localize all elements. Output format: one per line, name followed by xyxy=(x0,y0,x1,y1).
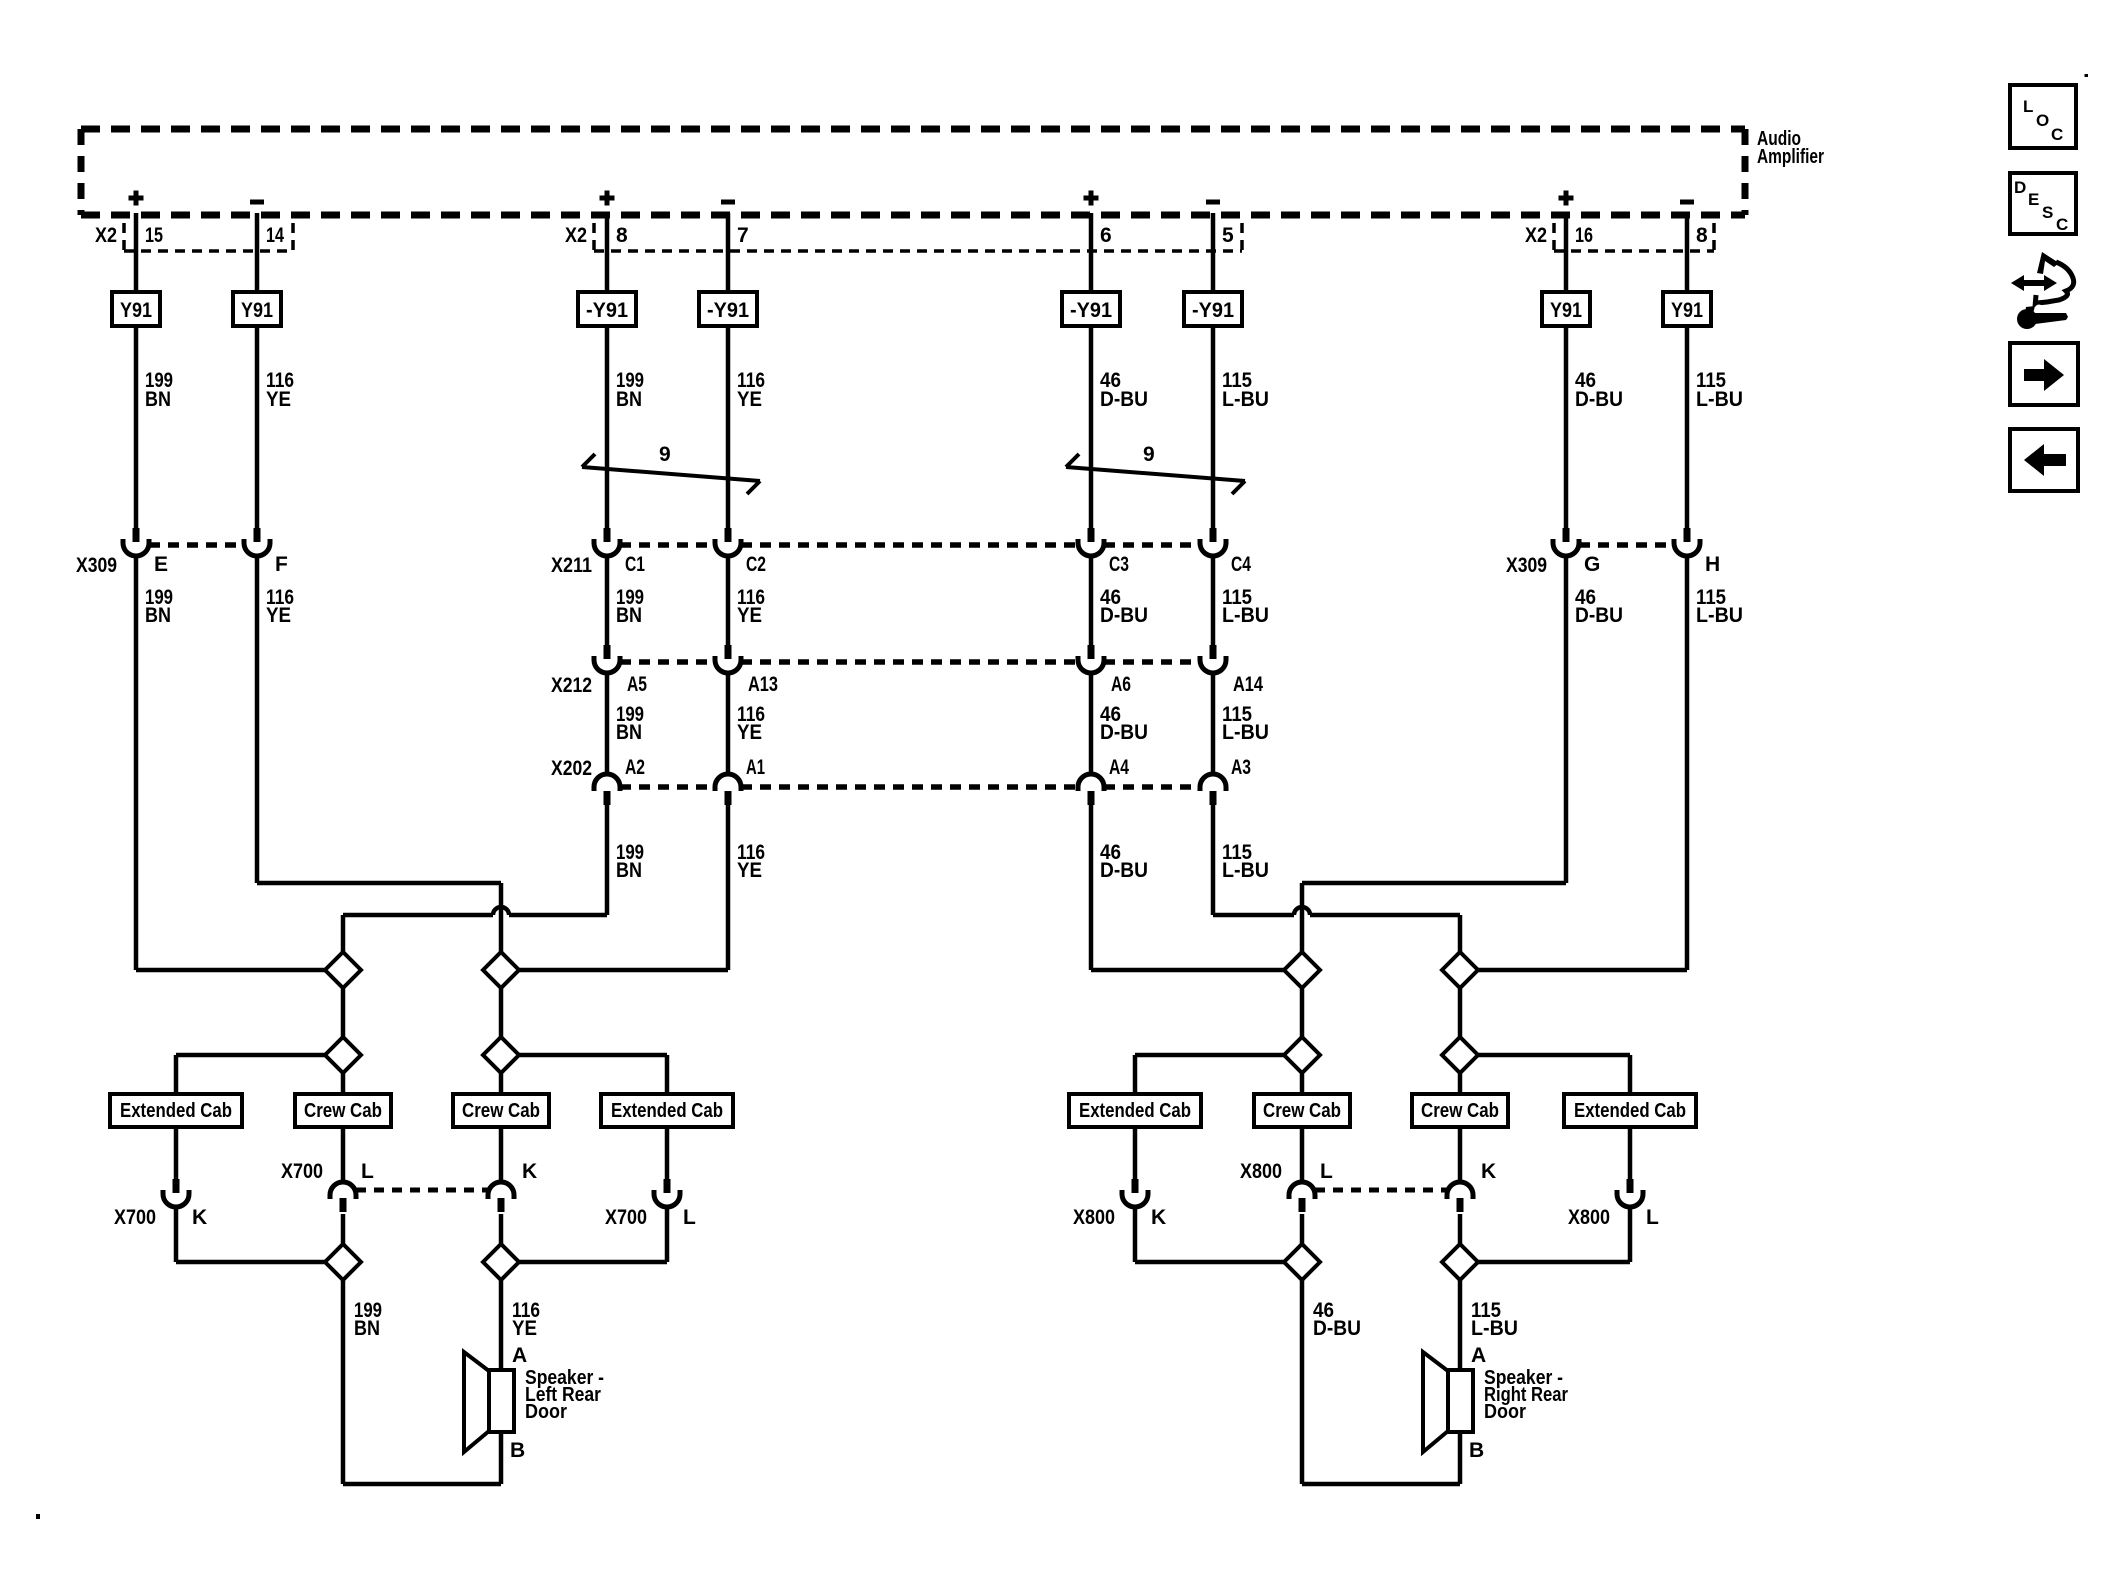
connector X211 dashed body C3-C4 xyxy=(1104,542,1200,548)
wire segment cab box to door connector xyxy=(1133,1127,1138,1179)
inline connector X202 terminal (flipped) xyxy=(1200,774,1226,805)
wire label 46 D-BU xyxy=(1100,586,1148,627)
wire label 199 BN xyxy=(616,841,644,882)
svg-text:15: 15 xyxy=(145,224,163,247)
svg-text:C3: C3 xyxy=(1109,553,1129,576)
wire segment X309-F down to crossover xyxy=(255,556,260,883)
wire segment cab box to door connector xyxy=(1628,1127,1633,1179)
wire 116 YE splice S10 to speaker A terminal xyxy=(499,1280,504,1370)
icon box DESC xyxy=(2010,173,2076,234)
inline connector terminal (pin+socket) xyxy=(123,528,149,556)
amplifier terminal - (RR-) xyxy=(1206,200,1220,205)
svg-text:BN: BN xyxy=(616,388,642,411)
connector X202 dashed body A2-A1 xyxy=(620,784,715,790)
svg-text:A: A xyxy=(512,1344,527,1367)
svg-text:Door: Door xyxy=(1484,1401,1526,1423)
wire label 46 D-BU xyxy=(1100,841,1148,882)
inline connector terminal (pin+socket) xyxy=(1553,528,1579,556)
svg-text:BN: BN xyxy=(616,604,642,627)
stray dot top right xyxy=(2085,74,2089,77)
connector X2 dashed box (pins 16,8) xyxy=(1554,223,1714,251)
inline connector X202 terminal (flipped) xyxy=(594,774,620,805)
svg-text:D-BU: D-BU xyxy=(1575,388,1623,411)
svg-text:K: K xyxy=(522,1160,537,1183)
svg-text:L: L xyxy=(1646,1206,1659,1229)
svg-text:6: 6 xyxy=(1100,224,1112,247)
svg-text:Amplifier: Amplifier xyxy=(1757,146,1824,168)
svg-text:Extended Cab: Extended Cab xyxy=(611,1100,723,1122)
svg-text:14: 14 xyxy=(266,224,284,247)
wire segment Y91 box to inline connector xyxy=(1564,326,1569,528)
icon box forward arrow xyxy=(2010,343,2078,405)
svg-text:L-BU: L-BU xyxy=(1696,388,1743,411)
svg-text:Door: Door xyxy=(525,1401,567,1423)
svg-text:8: 8 xyxy=(616,224,628,247)
wire segment Y91 box to inline connector xyxy=(1685,326,1690,528)
splice diamond S1 xyxy=(325,952,361,988)
speaker LS1 name label xyxy=(525,1367,604,1423)
svg-text:YE: YE xyxy=(512,1317,537,1340)
component code box -Y91 xyxy=(578,292,636,326)
amplifier terminal - (RF-) xyxy=(1680,200,1694,205)
wire X800-K middle down to splice S12 xyxy=(1458,1214,1463,1244)
wire branch to Extended Cab (right inner) xyxy=(1478,1055,1630,1094)
inline connector terminal (pin+socket) xyxy=(244,528,270,556)
component code box -Y91 xyxy=(1184,292,1242,326)
wire X800-L outer down and left to splice S12 xyxy=(1478,1207,1630,1262)
svg-text:X2: X2 xyxy=(1525,224,1547,247)
svg-text:X700: X700 xyxy=(281,1160,323,1183)
wire segment X309-H down to splice area xyxy=(1685,556,1690,970)
svg-text:X800: X800 xyxy=(1240,1160,1282,1183)
svg-text:L-BU: L-BU xyxy=(1222,859,1269,882)
stray mark bottom left xyxy=(36,1514,40,1519)
connector X800 terminal K (left outer) xyxy=(1122,1179,1148,1207)
wire X700-L outer down and left to splice S10 xyxy=(519,1207,667,1262)
svg-text:K: K xyxy=(192,1206,207,1229)
wire segment amplifier to Y91 box xyxy=(1211,213,1216,292)
svg-text:X800: X800 xyxy=(1568,1206,1610,1229)
wire 116 YE X309-F down right to splice S2 xyxy=(257,883,501,952)
svg-text:L-BU: L-BU xyxy=(1222,604,1269,627)
svg-text:Extended Cab: Extended Cab xyxy=(1079,1100,1191,1122)
wire segment X212 to X202 xyxy=(605,673,610,774)
wire label 46 D-BU xyxy=(1575,369,1623,411)
svg-text:Y91: Y91 xyxy=(120,299,152,322)
svg-text:K: K xyxy=(1481,1160,1496,1183)
svg-text:YE: YE xyxy=(737,604,762,627)
svg-text:8: 8 xyxy=(1696,224,1708,247)
amplifier terminal + (RR+) xyxy=(1084,191,1099,206)
svg-text:16: 16 xyxy=(1575,224,1593,247)
svg-text:C2: C2 xyxy=(746,553,766,576)
wire label 116 YE xyxy=(737,841,765,882)
svg-text:A3: A3 xyxy=(1231,756,1251,779)
connector X800 terminal L (right outer) xyxy=(1617,1179,1643,1207)
svg-text:A6: A6 xyxy=(1111,673,1131,696)
wire segment X211 to X212 xyxy=(1211,556,1216,645)
wire label 46 D-BU xyxy=(1100,369,1148,411)
wire 115 L-BU X202-A3 down right to splice S4 (hop over) xyxy=(1213,804,1460,952)
connector X202 dashed body A1-A4 xyxy=(741,784,1078,790)
svg-text:X700: X700 xyxy=(605,1206,647,1229)
svg-text:BN: BN xyxy=(354,1317,380,1340)
audio amplifier label xyxy=(1757,128,1824,168)
svg-text:L-BU: L-BU xyxy=(1222,721,1269,744)
wire segment Y91 box to inline connector xyxy=(605,326,610,528)
wire label 115 L-BU xyxy=(1222,703,1269,744)
inline connector X212 terminal xyxy=(594,645,620,673)
splice diamond S10 xyxy=(483,1244,519,1280)
connector X212 dashed body A5-A13 xyxy=(620,659,715,665)
svg-text:Y91: Y91 xyxy=(241,299,273,322)
wire 199 BN splice S9 to speaker B terminal xyxy=(343,1280,501,1484)
wire 199 BN X202-A2 down then left to splice S1 (hop over) xyxy=(343,804,607,952)
amplifier terminal + (LR+) xyxy=(600,191,615,206)
wire 116 YE X202-A1 down left into splice S2 xyxy=(519,804,728,970)
wire segment cab box to door connector xyxy=(1458,1127,1463,1183)
splice diamond S8 xyxy=(1442,1037,1478,1073)
svg-text:E: E xyxy=(2028,190,2039,209)
svg-text:C: C xyxy=(2051,125,2063,144)
wire X700-K middle down to splice S10 xyxy=(499,1214,504,1244)
splice diamond S6 xyxy=(483,1037,519,1073)
wire segment cab box to door connector xyxy=(174,1127,179,1179)
svg-text:BN: BN xyxy=(145,604,171,627)
inline connector terminal (pin+socket) xyxy=(1674,528,1700,556)
connector X212 dashed body A6-A14 xyxy=(1104,659,1200,665)
svg-text:YE: YE xyxy=(737,388,762,411)
connector X700 dashed body L-K xyxy=(356,1188,488,1193)
svg-text:D-BU: D-BU xyxy=(1100,859,1148,882)
wire label 116 YE xyxy=(266,369,294,411)
component code box Y91 xyxy=(233,292,281,326)
wire label 199 BN xyxy=(145,586,173,627)
wire segment amplifier to Y91 box xyxy=(1685,213,1690,292)
wire label 116 YE xyxy=(737,586,765,627)
component code box -Y91 xyxy=(1062,292,1120,326)
svg-text:L-BU: L-BU xyxy=(1696,604,1743,627)
speaker LS1 Left Rear Door symbol xyxy=(464,1352,514,1452)
svg-text:X309: X309 xyxy=(76,554,117,577)
splice diamond S3 xyxy=(1284,952,1320,988)
audio amplifier U1 dashed outline box xyxy=(81,129,1745,215)
svg-text:9: 9 xyxy=(1143,443,1155,466)
svg-text:-Y91: -Y91 xyxy=(586,299,628,322)
svg-text:D-BU: D-BU xyxy=(1100,388,1148,411)
connector X800 terminal K (crew cab right) xyxy=(1447,1182,1473,1212)
svg-text:L-BU: L-BU xyxy=(1471,1317,1518,1340)
splice diamond S7 xyxy=(1284,1037,1320,1073)
wire label 116 YE xyxy=(737,703,765,744)
wire label 115 L-BU xyxy=(1222,369,1269,411)
svg-text:YE: YE xyxy=(737,859,762,882)
splice diamond S9 xyxy=(325,1244,361,1280)
svg-text:5: 5 xyxy=(1222,224,1234,247)
svg-text:K: K xyxy=(1151,1206,1166,1229)
wire label 115 L-BU (to right speaker) xyxy=(1471,1299,1518,1340)
wire segment amplifier to Y91 box xyxy=(134,213,139,292)
svg-text:-Y91: -Y91 xyxy=(1192,299,1234,322)
twisted-pair symbol 9 (wires 199/116 left-rear) xyxy=(582,443,760,494)
wire segment Y91 box to inline connector xyxy=(255,326,260,528)
splice diamond S2 xyxy=(483,952,519,988)
inline connector terminal (pin+socket) xyxy=(715,528,741,556)
wire segment X309-E down to splice area xyxy=(134,556,139,970)
splice diamond S11 xyxy=(1284,1244,1320,1280)
wire label 46 D-BU xyxy=(1100,703,1148,744)
svg-text:D: D xyxy=(2014,178,2026,197)
speaker LS2 name label xyxy=(1484,1367,1568,1423)
svg-text:O: O xyxy=(2036,111,2049,130)
option box Extended Cab (left inner) xyxy=(601,1094,733,1127)
option box Crew Cab (left) xyxy=(295,1094,391,1127)
svg-text:C4: C4 xyxy=(1231,553,1251,576)
wire 46 D-BU splice S11 to right speaker B terminal xyxy=(1302,1280,1460,1484)
connector X800 terminal L (crew cab left) xyxy=(1289,1182,1315,1212)
wire segment X211 to X212 xyxy=(605,556,610,645)
svg-text:X2: X2 xyxy=(565,224,587,247)
connector X700 terminal L (crew cab left) xyxy=(330,1182,356,1212)
option box Crew Cab (right) xyxy=(1254,1094,1350,1127)
wire 115 L-BU splice S12 to right speaker A terminal xyxy=(1458,1280,1463,1370)
wire segment X212 to X202 xyxy=(1089,673,1094,774)
svg-text:L: L xyxy=(683,1206,696,1229)
wire X700-K outer down and right to splice S9 xyxy=(176,1207,325,1262)
amplifier terminal - (LF-) xyxy=(250,200,264,205)
svg-text:YE: YE xyxy=(266,388,291,411)
svg-text:7: 7 xyxy=(737,224,749,247)
svg-text:D-BU: D-BU xyxy=(1313,1317,1361,1340)
connector X309 left dashed body E-F xyxy=(149,542,244,548)
svg-text:L: L xyxy=(361,1160,374,1183)
amplifier terminal - (LR-) xyxy=(721,200,735,205)
wire label 46 D-BU (to right speaker) xyxy=(1313,1299,1361,1340)
wire 46 D-BU X202-A4 down then to splice S3 area xyxy=(1091,804,1284,970)
wire segment splice to splice xyxy=(499,988,504,1037)
svg-text:Crew Cab: Crew Cab xyxy=(1421,1100,1499,1122)
inline connector X212 terminal xyxy=(1078,645,1104,673)
wire label 115 L-BU xyxy=(1696,586,1743,627)
connector X2 dashed box (pins 8,7,6,5) xyxy=(594,223,1242,251)
wire segment Y91 box to inline connector xyxy=(1211,326,1216,528)
svg-text:X202: X202 xyxy=(551,757,592,780)
wire label 115 L-BU xyxy=(1696,369,1743,411)
svg-text:X800: X800 xyxy=(1073,1206,1115,1229)
svg-text:BN: BN xyxy=(616,859,642,882)
wire branch to Crew Cab (right) xyxy=(1300,1073,1305,1094)
svg-text:Extended Cab: Extended Cab xyxy=(120,1100,232,1122)
connector X202 dashed body A4-A3 xyxy=(1104,784,1200,790)
svg-text:A1: A1 xyxy=(746,756,765,779)
svg-text:X2: X2 xyxy=(95,224,117,247)
inline connector X202 terminal (flipped) xyxy=(715,774,741,805)
svg-text:9: 9 xyxy=(659,443,671,466)
svg-text:A4: A4 xyxy=(1109,756,1129,779)
wire segment amplifier to Y91 box xyxy=(1564,213,1569,292)
splice diamond S12 xyxy=(1442,1244,1478,1280)
icon box back arrow xyxy=(2010,429,2078,491)
svg-text:YE: YE xyxy=(737,721,762,744)
connector X800 dashed body L-K xyxy=(1315,1188,1447,1193)
icon box LOC xyxy=(2010,85,2076,148)
wire branch to Crew Cab (right inner) xyxy=(1458,1073,1463,1094)
wire branch to Extended Cab (right outer) xyxy=(1135,1055,1284,1094)
wire segment cab box to door connector xyxy=(665,1127,670,1179)
svg-text:A13: A13 xyxy=(748,673,778,696)
inline connector X212 terminal xyxy=(715,645,741,673)
connector X211 dashed body C1-C2 xyxy=(620,542,715,548)
svg-text:Crew Cab: Crew Cab xyxy=(462,1100,540,1122)
wire segment splice to splice xyxy=(1458,988,1463,1037)
connector X700 terminal K (left outer) xyxy=(163,1179,189,1207)
wire segment X309-G down to crossover xyxy=(1564,556,1569,883)
svg-text:F: F xyxy=(275,553,288,576)
wire label 115 L-BU xyxy=(1222,586,1269,627)
svg-text:X212: X212 xyxy=(551,674,592,697)
wire label 46 D-BU xyxy=(1575,586,1623,627)
inline connector terminal (pin+socket) xyxy=(594,528,620,556)
option box Extended Cab (left outer) xyxy=(110,1094,242,1127)
amplifier terminal + (LF+) xyxy=(129,191,144,206)
svg-text:H: H xyxy=(1705,553,1720,576)
wire segment cab box to door connector xyxy=(1300,1127,1305,1183)
svg-text:X700: X700 xyxy=(114,1206,156,1229)
svg-text:Y91: Y91 xyxy=(1671,299,1703,322)
svg-text:A5: A5 xyxy=(627,673,647,696)
svg-text:D-BU: D-BU xyxy=(1100,604,1148,627)
wire label 199 BN (to left speaker) xyxy=(354,1299,382,1340)
wire label 199 BN xyxy=(616,369,644,411)
wire segment X211 to X212 xyxy=(1089,556,1094,645)
inline connector X202 terminal (flipped) xyxy=(1078,774,1104,805)
wire label 199 BN xyxy=(145,369,173,411)
option box Extended Cab (right inner) xyxy=(1564,1094,1696,1127)
connector X309 right dashed body G-H xyxy=(1579,542,1674,548)
wire label 115 L-BU xyxy=(1222,841,1269,882)
svg-text:G: G xyxy=(1584,553,1600,576)
svg-text:B: B xyxy=(510,1439,525,1462)
svg-text:BN: BN xyxy=(145,388,171,411)
icon change/repair (arrows and wrench) xyxy=(2011,252,2074,329)
component code box -Y91 xyxy=(699,292,757,326)
amplifier terminal + (RF+) xyxy=(1559,191,1574,206)
wire X800-L middle down to splice S11 xyxy=(1300,1214,1305,1244)
wire segment X212 to X202 xyxy=(1211,673,1216,774)
wire segment Y91 box to inline connector xyxy=(726,326,731,528)
component code box Y91 xyxy=(1542,292,1590,326)
wire label 199 BN xyxy=(616,586,644,627)
svg-text:C1: C1 xyxy=(625,553,645,576)
svg-text:-Y91: -Y91 xyxy=(707,299,749,322)
svg-text:A2: A2 xyxy=(625,756,645,779)
svg-text:S: S xyxy=(2042,203,2053,222)
wire label 199 BN xyxy=(616,703,644,744)
svg-text:A14: A14 xyxy=(1233,673,1263,696)
wire label 116 YE (to left speaker) xyxy=(512,1299,540,1340)
connector X2 dashed box (pins 15,14) xyxy=(124,223,293,251)
svg-text:B: B xyxy=(1469,1439,1484,1462)
svg-text:D-BU: D-BU xyxy=(1100,721,1148,744)
connector X700 terminal K (crew cab right) xyxy=(488,1182,514,1212)
wire branch to Extended Cab (left outer) xyxy=(176,1055,325,1094)
wire segment amplifier to Y91 box xyxy=(255,213,260,292)
svg-text:YE: YE xyxy=(266,604,291,627)
connector X211 dashed body C2-C3 xyxy=(741,542,1078,548)
wire X700-L middle down to splice S9 xyxy=(341,1214,346,1244)
option box Crew Cab (left inner) xyxy=(453,1094,549,1127)
wire label 116 YE xyxy=(266,586,294,627)
wire branch to Crew Cab (left inner) xyxy=(499,1073,504,1094)
svg-text:X211: X211 xyxy=(551,554,592,577)
svg-text:-Y91: -Y91 xyxy=(1070,299,1112,322)
wire 115 L-BU X309-H left leg into splice S4 xyxy=(1478,968,1687,973)
speaker LS2 Right Rear Door symbol xyxy=(1423,1352,1473,1452)
twisted-pair symbol 9 (wires 46/115 right-rear) xyxy=(1066,443,1245,494)
wire segment X212 to X202 xyxy=(726,673,731,774)
wire segment cab box to door connector xyxy=(341,1127,346,1183)
svg-text:X309: X309 xyxy=(1506,554,1547,577)
svg-text:Crew Cab: Crew Cab xyxy=(1263,1100,1341,1122)
wire segment amplifier to Y91 box xyxy=(726,213,731,292)
wire segment splice to splice xyxy=(341,988,346,1037)
option box Extended Cab (right outer) xyxy=(1069,1094,1201,1127)
inline connector terminal (pin+socket) xyxy=(1200,528,1226,556)
wire segment cab box to door connector xyxy=(499,1127,504,1183)
svg-text:L-BU: L-BU xyxy=(1222,388,1269,411)
wire X800-K outer down and right to splice S11 xyxy=(1135,1207,1284,1262)
connector X700 terminal L (right outer) xyxy=(654,1179,680,1207)
svg-text:Y91: Y91 xyxy=(1550,299,1582,322)
wire segment X211 to X212 xyxy=(726,556,731,645)
connector X212 dashed body A13-A6 xyxy=(741,659,1078,665)
svg-text:BN: BN xyxy=(616,721,642,744)
svg-text:E: E xyxy=(154,553,168,576)
svg-text:L: L xyxy=(2023,97,2033,116)
splice diamond S4 xyxy=(1442,952,1478,988)
svg-text:Extended Cab: Extended Cab xyxy=(1574,1100,1686,1122)
splice diamond S5 xyxy=(325,1037,361,1073)
inline connector terminal (pin+socket) xyxy=(1078,528,1104,556)
svg-text:A: A xyxy=(1471,1344,1486,1367)
inline connector X212 terminal xyxy=(1200,645,1226,673)
component code box Y91 xyxy=(1663,292,1711,326)
wire segment Y91 box to inline connector xyxy=(1089,326,1094,528)
wire label 116 YE xyxy=(737,369,765,411)
wire 46 D-BU X309-G down left to splice S3 (via crossover) xyxy=(1302,883,1566,952)
wire segment amplifier to Y91 box xyxy=(605,213,610,292)
component code box Y91 xyxy=(112,292,160,326)
svg-text:Crew Cab: Crew Cab xyxy=(304,1100,382,1122)
wire segment Y91 box to inline connector xyxy=(134,326,139,528)
svg-text:D-BU: D-BU xyxy=(1575,604,1623,627)
wire 199 BN X309-E left leg into splice S1 xyxy=(136,968,325,973)
wire segment splice to splice xyxy=(1300,988,1305,1037)
svg-text:L: L xyxy=(1320,1160,1333,1183)
wire segment amplifier to Y91 box xyxy=(1089,213,1094,292)
wire branch to Crew Cab (left) xyxy=(341,1073,346,1094)
svg-text:C: C xyxy=(2056,215,2068,234)
wire branch to Extended Cab (left inner) xyxy=(519,1055,667,1094)
option box Crew Cab (right inner) xyxy=(1412,1094,1508,1127)
